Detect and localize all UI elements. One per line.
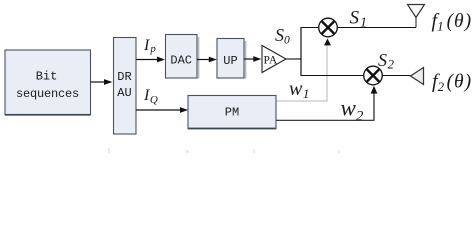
wire UP->PA [244,56,261,62]
wire bottom branch [301,75,411,77]
antenna 2 [411,68,424,85]
svg-text:UP: UP [223,54,237,68]
svg-text:Bit: Bit [36,70,58,84]
wire w1 from PM [276,39,331,102]
wire PA->splitter [286,58,302,60]
svg-text:w1: w1 [289,78,309,101]
block UP [217,39,246,79]
svg-text:DAC: DAC [170,54,192,68]
antenna 1 [408,5,425,28]
svg-text:w2: w2 [341,96,364,125]
block PM [188,96,276,129]
wire top branch [301,27,416,29]
svg-text:AU: AU [117,86,131,100]
block DR AU [114,38,137,135]
svg-text:PA: PA [264,55,278,67]
svg-text:PM: PM [225,106,239,120]
svg-text:IQ: IQ [143,87,158,106]
svg-text:DR: DR [117,70,131,84]
wire DRAU->PM with label IQ [136,107,188,113]
amplifier PA [262,46,286,73]
wire splitter vertical [300,27,302,76]
svg-text:f1(θ): f1(θ) [432,10,473,34]
wire w2 from PM [276,86,377,121]
faint caption remnant marks [108,148,340,153]
svg-text:sequences: sequences [16,87,79,101]
wire Bit->DRAU [91,79,113,85]
block Bit sequences [5,50,91,115]
wire DRAU->DAC with label Ip [136,57,165,63]
svg-text:Ip: Ip [143,37,156,55]
svg-text:S2: S2 [378,50,395,72]
wire DAC->UP [197,57,217,63]
block DAC [166,35,199,79]
svg-text:f2(θ): f2(θ) [432,71,472,95]
multiplier S2 [364,66,383,85]
svg-text:S0: S0 [275,25,290,47]
multiplier S1 [319,18,338,37]
svg-text:S1: S1 [350,8,368,31]
